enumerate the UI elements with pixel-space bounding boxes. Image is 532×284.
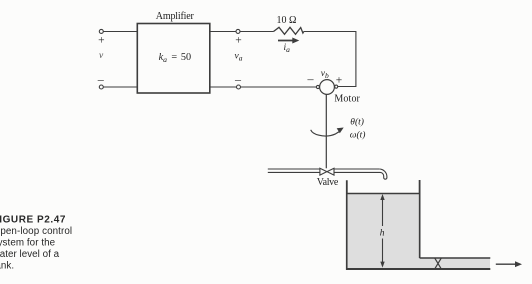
valve bowtie xyxy=(320,168,334,175)
svg-text:water level of a: water level of a xyxy=(0,249,60,260)
outflow arrow line xyxy=(496,263,517,265)
resistor R 10ohm xyxy=(274,27,304,34)
svg-text:+: + xyxy=(235,34,242,46)
outlet restriction X xyxy=(435,258,441,269)
wire resistor to motor xyxy=(304,32,356,87)
h arrow head top xyxy=(380,194,384,200)
channel top line xyxy=(420,257,491,259)
svg-text:–: – xyxy=(234,72,242,86)
spout bend xyxy=(379,169,387,179)
output terminal top xyxy=(236,29,240,33)
wire output top xyxy=(210,31,274,33)
input terminal top xyxy=(99,29,103,33)
pipe left xyxy=(268,168,320,170)
svg-text:10 Ω: 10 Ω xyxy=(277,15,297,26)
svg-text:tank.: tank. xyxy=(0,261,14,272)
svg-text:ia: ia xyxy=(284,43,291,54)
pipe right xyxy=(334,168,379,170)
level arrow h xyxy=(382,196,384,226)
svg-text:Open-loop control: Open-loop control xyxy=(0,226,72,237)
wire input top xyxy=(103,31,137,33)
svg-text:Valve: Valve xyxy=(317,177,339,188)
output terminal bottom xyxy=(237,85,241,89)
amplifier block xyxy=(137,24,210,94)
svg-text:Amplifier: Amplifier xyxy=(156,11,195,22)
svg-text:Motor: Motor xyxy=(334,94,360,105)
svg-text:ω(t): ω(t) xyxy=(350,129,366,140)
svg-text:h: h xyxy=(380,229,385,239)
svg-text:ka=50: ka=50 xyxy=(159,52,191,64)
svg-text:vb: vb xyxy=(321,69,329,80)
svg-text:–: – xyxy=(97,72,105,86)
svg-text:FIGURE P2.47: FIGURE P2.47 xyxy=(0,215,66,226)
tank right wall xyxy=(419,180,421,258)
wire input bottom xyxy=(103,86,137,88)
motor M xyxy=(320,80,335,95)
tank left wall xyxy=(346,180,348,270)
input terminal bottom xyxy=(99,85,103,89)
rotation arrow xyxy=(311,130,341,136)
wire output bottom xyxy=(210,86,316,88)
svg-text:–: – xyxy=(307,72,315,86)
svg-text:+: + xyxy=(98,34,105,46)
svg-text:θ(t): θ(t) xyxy=(350,116,364,127)
svg-text:system for the: system for the xyxy=(0,238,56,249)
water fill xyxy=(348,194,490,268)
svg-text:v: v xyxy=(99,51,104,61)
outflow arrowhead xyxy=(515,261,522,267)
water surface line xyxy=(347,193,420,195)
current arrow ia xyxy=(278,38,299,44)
svg-text:va: va xyxy=(235,52,243,63)
motor terminal left xyxy=(316,85,319,88)
rotation arrowhead xyxy=(337,128,344,134)
h arrow head bottom xyxy=(380,262,384,268)
motor terminal right xyxy=(335,85,338,88)
svg-text:+: + xyxy=(336,75,343,87)
motor shaft xyxy=(325,94,327,168)
tank bottom line xyxy=(346,268,490,270)
